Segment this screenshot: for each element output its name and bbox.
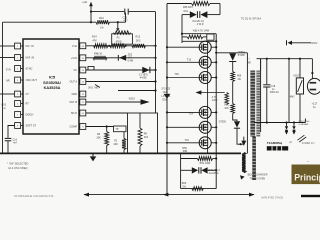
wire drain stub T17	[211, 142, 216, 144]
svg-text:14A: 14A	[163, 91, 168, 94]
svg-text:R51 1/4W: R51 1/4W	[200, 162, 211, 165]
resistor Rg	[225, 93, 229, 105]
node +12V/R12 rail	[90, 21, 92, 23]
wire source chain 4	[207, 118, 209, 122]
wire P2 top	[123, 132, 125, 139]
svg-text:220V 50Hz: 220V 50Hz	[299, 121, 310, 123]
ground symbol left	[92, 153, 94, 156]
svg-text:SOFT ST: SOFT ST	[26, 125, 37, 128]
black coded bar	[267, 146, 288, 150]
node bus G row5	[154, 89, 156, 91]
svg-text:4(B) 4.7K 1/4W: 4(B) 4.7K 1/4W	[193, 29, 210, 32]
wire drain stub T16	[211, 126, 216, 128]
resistor R68	[187, 35, 203, 39]
svg-text:T16: T16	[185, 139, 190, 142]
svg-text:Princip: Princip	[294, 173, 320, 183]
diode D8	[229, 53, 236, 61]
svg-text:47K: 47K	[92, 39, 97, 42]
svg-text:IC5: IC5	[49, 74, 56, 79]
svg-text:SYN: SYN	[6, 68, 11, 71]
wire drain to snubber	[216, 52, 247, 54]
svg-text:R12: R12	[99, 16, 104, 20]
svg-text:COMP: COMP	[70, 126, 78, 129]
node drain bus T17	[215, 142, 217, 144]
power +12V arrow	[89, 2, 93, 7]
svg-text:VOLT: VOLT	[293, 75, 300, 78]
node D9 bottom	[240, 143, 242, 145]
svg-text:R66: R66	[237, 75, 242, 77]
node drain bus T13	[215, 61, 217, 63]
svg-text:5*C+CE: 5*C+CE	[162, 88, 171, 91]
wire OUT B row	[86, 101, 141, 103]
wire Vref resistor row	[86, 45, 157, 47]
svg-text:39R: 39R	[183, 150, 188, 153]
capacitor C14	[5, 137, 12, 139]
node gate bus T12	[166, 46, 168, 48]
wire bus G vertical	[155, 12, 157, 113]
svg-text:RV2: RV2	[2, 103, 7, 106]
svg-text:DISCH: DISCH	[26, 114, 34, 117]
wire R16 right	[210, 3, 220, 5]
svg-text:OUT A: OUT A	[70, 81, 78, 84]
wire R66 down	[232, 82, 234, 104]
svg-text:**: **	[307, 161, 309, 164]
wire D9 down	[237, 128, 244, 144]
capacitor C15	[263, 84, 270, 86]
wire plug prong 2	[293, 123, 295, 127]
node drain bus T12	[215, 46, 217, 48]
svg-text:SA NAPAJANJE U IZLAZNOG STE: SA NAPAJANJE U IZLAZNOG STE	[14, 195, 54, 198]
wire left vertical rail	[2, 22, 4, 153]
resistor R4B	[93, 56, 107, 60]
svg-text:**: **	[248, 59, 250, 61]
arrow gate note	[195, 90, 201, 94]
svg-text:R13: R13	[136, 36, 141, 39]
wire VC row	[86, 69, 157, 71]
wire gate T17	[167, 142, 199, 144]
svg-text:4n7: 4n7	[124, 19, 129, 22]
wire bottom output rail	[254, 122, 305, 124]
wire mid output drop	[288, 59, 290, 123]
svg-text:4=005: 4=005	[140, 77, 147, 80]
svg-text:KA3525A: KA3525A	[44, 86, 61, 90]
svg-text:R6C: R6C	[224, 105, 229, 107]
svg-text:0.1A MAX: 0.1A MAX	[299, 123, 309, 126]
wire C15 upper	[266, 59, 268, 84]
node drain snubber	[215, 52, 217, 54]
node bus G row2	[154, 57, 156, 59]
svg-text:1/4W: 1/4W	[212, 99, 218, 102]
svg-text:SG3525A/: SG3525A/	[43, 81, 62, 85]
wire diode pair left	[182, 14, 190, 16]
pulse symbol	[88, 66, 94, 70]
svg-text:2 W R: 2 W R	[197, 23, 204, 26]
resistor R13	[132, 44, 146, 48]
svg-text:3R: 3R	[248, 61, 251, 64]
node drain bus T14	[215, 76, 217, 78]
diode D9	[234, 121, 240, 127]
svg-text:10K: 10K	[224, 108, 229, 110]
potentiometer P1	[114, 31, 131, 35]
svg-text:1N4148 x 2: 1N4148 x 2	[208, 170, 220, 172]
watermark box	[292, 165, 320, 185]
svg-text:BE/OP CHARGER: BE/OP CHARGER	[248, 173, 268, 176]
diode D1	[142, 67, 149, 73]
wire ground bus	[0, 152, 241, 154]
svg-text:T14: T14	[189, 113, 194, 116]
svg-text:2K2: 2K2	[144, 136, 149, 139]
node drain bus T15	[215, 111, 217, 113]
potentiometer P1 wiper arrow	[116, 28, 119, 31]
svg-text:TP: TP	[115, 128, 118, 131]
node R51 right	[215, 157, 217, 159]
wire top-left horizontal	[3, 21, 97, 23]
svg-text:GND: GND	[71, 93, 77, 96]
wire COMP row	[86, 126, 114, 128]
wire C20 rail right	[129, 11, 156, 13]
wire R12 to C20 node	[110, 21, 126, 23]
wire R8 top	[139, 113, 141, 128]
wire right edge drop	[311, 59, 313, 79]
box feedback left edge	[180, 153, 182, 188]
node gate bus T15	[166, 111, 168, 113]
wire diode row right	[208, 169, 217, 171]
wire diode row left	[181, 169, 192, 171]
svg-text:SUMER KO: SUMER KO	[302, 142, 315, 145]
node voltmeter top	[299, 58, 301, 60]
svg-text:400V AC: 400V AC	[270, 91, 279, 94]
resistor R14	[94, 44, 109, 48]
voltmeter M1	[296, 78, 303, 94]
dimension arrow	[84, 194, 254, 196]
svg-text:SH-D: SH-D	[71, 112, 77, 115]
wire DRIV	[292, 42, 311, 44]
wire GND row	[118, 90, 157, 92]
transistor T17	[199, 137, 211, 149]
svg-text:*°: *°	[274, 150, 276, 152]
wire transformer top stub	[260, 59, 262, 71]
pointer to plug	[297, 135, 304, 140]
wire OUT A row	[86, 81, 157, 83]
svg-text:TRANS OPEN: TRANS OPEN	[250, 178, 266, 181]
wire C20 rail left	[91, 11, 124, 13]
wire source chain 1	[207, 53, 209, 57]
node COMP/R6	[106, 125, 108, 127]
svg-text:R14: R14	[92, 36, 97, 39]
wire P2 bottom	[123, 150, 125, 154]
svg-text:R65 4W7: R65 4W7	[183, 6, 194, 9]
svg-text:OSC OUT: OSC OUT	[26, 79, 38, 82]
node y41 right	[215, 40, 217, 42]
IC5 left pins 1-8	[15, 43, 21, 49]
svg-text:D7300: D7300	[219, 121, 227, 124]
box TP label	[114, 126, 127, 132]
wire drain bus vertical	[215, 34, 217, 189]
arrow OUT B	[141, 99, 150, 105]
node +12V/C20 rail	[90, 11, 92, 13]
wire plug prong 1	[286, 123, 288, 127]
connector DRIV bar	[286, 40, 288, 45]
zener diode ZD2	[117, 55, 119, 61]
wire C20 stub	[125, 13, 127, 23]
wire gate T12	[167, 46, 199, 48]
wire source chain 5	[207, 133, 209, 137]
ground symbol mid	[166, 91, 168, 94]
svg-text:OUT B: OUT B	[69, 101, 77, 104]
svg-text:T15: T15	[174, 73, 179, 76]
wire gate T14	[167, 77, 199, 79]
diode D5	[190, 11, 197, 18]
wire gate T16	[167, 126, 199, 128]
svg-text:AMPLIFIED STAGE: AMPLIFIED STAGE	[261, 196, 284, 199]
svg-text:LC’MUA: LC’MUA	[162, 95, 171, 98]
box gate small	[207, 34, 214, 40]
box around R8	[128, 113, 158, 153]
wire gate aux vertical	[181, 15, 183, 43]
wire SH-D row	[86, 112, 128, 114]
transformer TR1 primary	[250, 71, 255, 137]
wire +12V drop	[90, 6, 92, 22]
transistor T16	[199, 121, 211, 133]
wire gate bus	[166, 4, 168, 195]
wire snubber vertical	[246, 53, 248, 154]
svg-text:+12v: +12v	[82, 1, 88, 4]
wire drain stub T12	[211, 46, 216, 48]
resistor R51	[197, 157, 212, 161]
svg-text:NR: NR	[6, 79, 10, 82]
node gate bus T13	[166, 61, 168, 63]
resistor P2	[122, 139, 126, 150]
diode D6	[199, 11, 201, 18]
node right drop	[311, 72, 313, 74]
svg-text:ESB: ESB	[163, 98, 168, 101]
resistor R66	[231, 72, 235, 82]
wire pin1 input	[0, 45, 15, 47]
node plug left	[285, 121, 287, 123]
node bus G row3	[154, 69, 156, 71]
box feedback bottom edge	[181, 188, 217, 190]
node mid top	[288, 58, 290, 60]
resistor R6	[105, 132, 109, 146]
wire voltmeter bottom	[299, 94, 301, 123]
svg-text:10K: 10K	[96, 136, 101, 139]
wire diode pair right	[207, 14, 220, 16]
wire drain stub T15	[211, 111, 216, 113]
svg-text:INV .IN: INV .IN	[26, 45, 34, 48]
svg-text:3KO ‘ME: 3KO ‘ME	[88, 86, 99, 90]
node drain bus T16	[215, 126, 217, 128]
svg-text:* ‘SW’ SELECTED: * ‘SW’ SELECTED	[7, 162, 29, 166]
svg-text:HI-4 OSC FREQ: HI-4 OSC FREQ	[8, 166, 27, 170]
svg-text:SYNC: SYNC	[26, 68, 33, 71]
svg-text:22K: 22K	[114, 143, 119, 146]
connector DRIV arrow	[288, 41, 292, 45]
wire gate T13	[167, 61, 199, 63]
transistor T14	[199, 72, 211, 84]
resistor R8	[138, 128, 142, 146]
wire R51 row	[181, 158, 198, 160]
IC5 right pins 16-9	[80, 43, 86, 49]
wire corner down	[219, 4, 221, 15]
diode D11	[200, 167, 202, 173]
wire pin5 input	[0, 93, 15, 95]
transistor T15	[199, 106, 211, 118]
wire voltmeter drop	[299, 59, 301, 78]
wire D8 down	[232, 62, 234, 72]
socket CN1	[307, 78, 320, 94]
wire source chain 6	[207, 149, 209, 154]
svg-text:R4B 1K: R4B 1K	[94, 53, 103, 56]
wire R68 stub	[182, 36, 187, 38]
wire R6 bottom	[106, 146, 108, 154]
inductor choke	[242, 153, 245, 173]
svg-text:4J00J: 4J00J	[129, 99, 135, 101]
svg-text:+C17: +C17	[312, 104, 318, 106]
svg-text:T13: T13	[187, 58, 192, 61]
svg-text:+V.IN: +V.IN	[71, 57, 77, 60]
svg-text:V.ref: V.ref	[72, 45, 77, 48]
capacitor C20	[124, 9, 126, 15]
black bar bottom right	[301, 195, 320, 197]
node bus G row1	[154, 45, 156, 47]
svg-text:4n7: 4n7	[13, 142, 18, 145]
svg-text:K01: K01	[184, 10, 189, 13]
node R12/pot junction	[117, 21, 119, 23]
resistor P1 lower	[110, 44, 125, 48]
svg-text:DRIV: DRIV	[311, 42, 317, 45]
svg-text:TO D1 IN ‘SP 5A4: TO D1 IN ‘SP 5A4	[241, 17, 262, 20]
wire C15 lower	[266, 88, 268, 123]
svg-text:AxxAPKA: AxxAPKA	[209, 172, 219, 175]
resistor R6C	[231, 104, 235, 114]
wire y41 row	[182, 40, 216, 42]
svg-text:FR: FR	[3, 108, 6, 110]
wire y33 row	[182, 33, 216, 35]
svg-text:ГХАВОБЦ: ГХАВОБЦ	[267, 141, 283, 145]
arrow rail end	[243, 137, 245, 141]
wire R4B row	[86, 57, 157, 59]
wire R6C down	[233, 114, 237, 122]
node y33 left	[181, 33, 183, 35]
node plug right	[293, 121, 295, 123]
resistor R52	[192, 187, 204, 191]
transformer TR1 secondary	[256, 71, 260, 137]
wire drain stub T13	[211, 61, 216, 63]
wire R6 top	[106, 127, 108, 132]
wire drain stub T14	[211, 77, 216, 79]
wire gate T15	[167, 111, 199, 113]
transistor T12	[199, 41, 211, 53]
svg-text:VC: VC	[74, 69, 78, 72]
wire pin8 to C14	[8, 126, 15, 138]
svg-text:BY255: BY255	[238, 55, 246, 57]
wire C14 bottom	[7, 141, 9, 153]
resistor R12	[96, 20, 110, 24]
resistor R16	[192, 2, 211, 6]
transformer TR1 core	[255, 71, 257, 137]
node C15 top	[266, 58, 268, 60]
node C15 bottom	[266, 121, 268, 123]
svg-text:NI/F .IN: NI/F .IN	[26, 57, 35, 60]
node gate bus T16	[166, 126, 168, 128]
transformer winding lower	[252, 137, 256, 181]
transistor T13	[199, 56, 211, 68]
node divider A	[108, 45, 110, 47]
node gate bus T17	[166, 142, 168, 144]
wire R16 row	[167, 3, 192, 5]
diode D10	[192, 167, 198, 173]
wire source chain 2	[207, 68, 209, 72]
wire R8 bottom	[139, 146, 141, 153]
svg-text:0.4W: 0.4W	[128, 60, 134, 63]
wire pot wiper drop	[117, 22, 119, 28]
node diode row	[215, 169, 217, 171]
wire source chain 3	[207, 83, 209, 107]
svg-text:RT: RT	[26, 103, 30, 106]
svg-text:2K2: 2K2	[136, 39, 141, 42]
svg-text:4MY: 4MY	[290, 96, 295, 99]
op-amp IC5 box	[23, 39, 79, 134]
node bus G row4	[154, 80, 156, 82]
svg-text:100MA: 100MA	[238, 51, 246, 54]
svg-text:CT: CT	[26, 93, 30, 96]
wire pin2 input	[0, 57, 15, 59]
arrow choke bottom	[240, 175, 245, 179]
wire top output rail	[257, 58, 313, 60]
node gate bus T14	[166, 76, 168, 78]
